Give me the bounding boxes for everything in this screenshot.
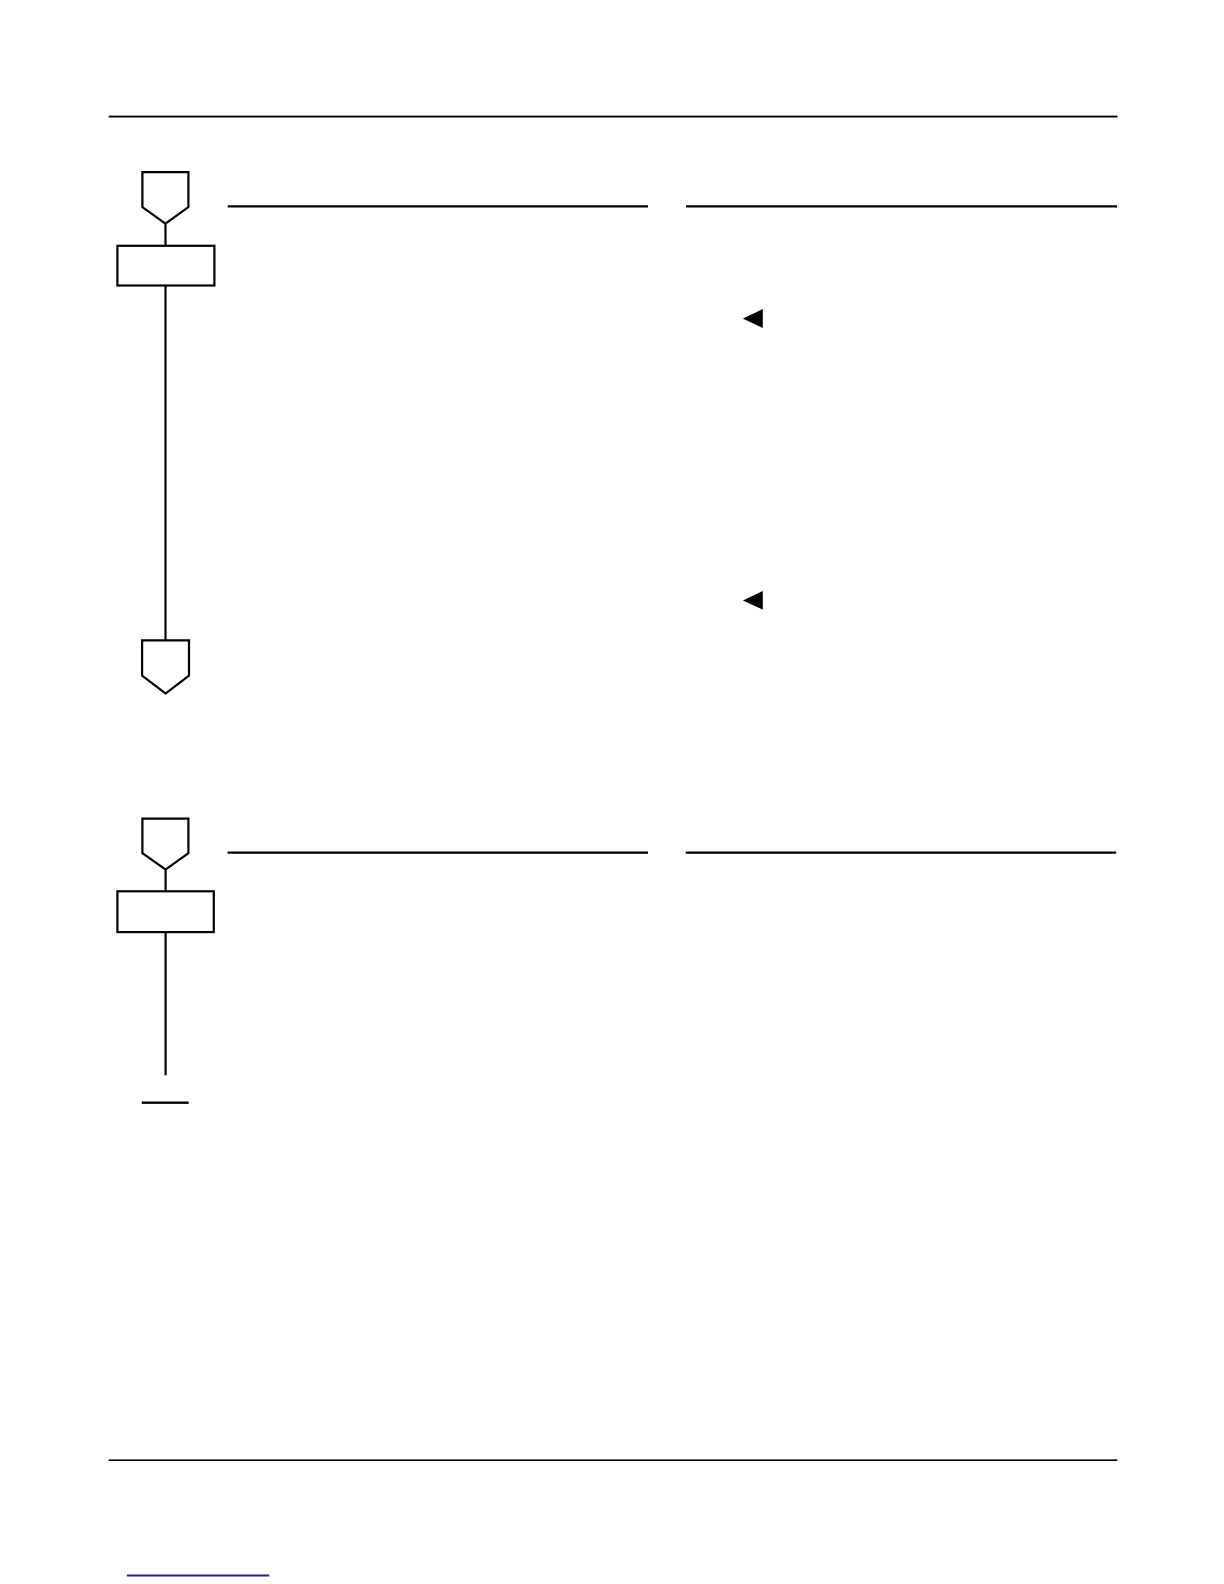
- top header rule: [109, 116, 1118, 118]
- flowchart 2 entry off-page connector symbol: [142, 819, 188, 870]
- section 1 right column header underline: [686, 205, 1117, 207]
- flowchart 1 process box: [117, 246, 214, 286]
- section 2 right column header underline: [686, 851, 1116, 853]
- arrow marker 2 (left-pointing triangle): [743, 591, 763, 610]
- flowchart 1 exit off-page connector symbol: [142, 640, 189, 693]
- wire: flowchart 1 process box down to exit connector: [164, 286, 166, 641]
- section 1 left column header underline: [228, 205, 648, 207]
- flowchart 2 process box: [117, 891, 213, 932]
- wire: flowchart 2 process box down: [165, 932, 167, 1075]
- arrow marker 1 (left-pointing triangle): [743, 309, 763, 328]
- footer hyperlink underline (blue): [127, 1575, 269, 1577]
- terminator underline below flowchart 2: [142, 1101, 189, 1103]
- flowchart 1 entry off-page connector symbol: [142, 172, 188, 224]
- bottom footer rule: [109, 1459, 1117, 1461]
- wire: flowchart 1 connector to process box: [164, 224, 166, 246]
- section 2 left column header underline: [228, 851, 648, 853]
- wire: flowchart 2 connector to process box: [165, 870, 167, 892]
